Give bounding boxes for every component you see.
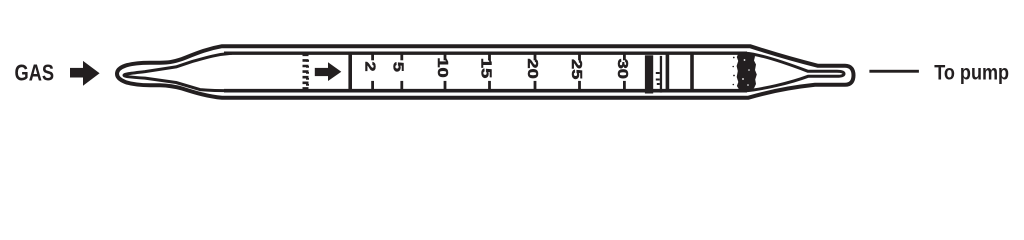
- scale number 30: [614, 59, 631, 79]
- svg-text:30: 30: [614, 59, 631, 79]
- tube inner wall bottom: [224, 89, 747, 93]
- svg-text:20: 20: [525, 58, 542, 78]
- connector dash to pump: [869, 70, 919, 73]
- scale number 20: [525, 58, 542, 78]
- svg-text:25: 25: [568, 59, 585, 79]
- scale number 5: [390, 62, 407, 72]
- tube inner wall top: [224, 52, 747, 55]
- svg-text:10: 10: [434, 57, 451, 77]
- svg-text:GAS: GAS: [15, 61, 55, 86]
- GAS flow block arrow: [70, 61, 100, 86]
- scale number 2: [362, 61, 379, 71]
- svg-text:15: 15: [478, 58, 495, 78]
- scale number 10: [434, 57, 451, 77]
- svg-text:5: 5: [390, 62, 407, 72]
- scale start line: [348, 53, 352, 92]
- scale end line: [666, 53, 670, 92]
- svg-text:2: 2: [362, 61, 379, 71]
- detector tube outer body: [117, 46, 854, 98]
- scale ticks top: [373, 52, 625, 60]
- tube inner wall left (broken tip bore): [124, 53, 232, 90]
- tiny unit marks beside band: [656, 56, 662, 93]
- To pump label: [934, 61, 1009, 85]
- reagent end line: [690, 53, 694, 92]
- tube inner wall right (pump-end bore): [746, 53, 844, 90]
- printed flow arrow inside tube: [315, 62, 342, 81]
- printed black band near scale end: [645, 55, 653, 93]
- svg-text:To pump: To pump: [934, 61, 1009, 85]
- scale number 25: [568, 59, 585, 79]
- scale ticks bottom: [373, 81, 625, 92]
- GAS label: [15, 61, 55, 86]
- stippled retaining plug: [732, 53, 756, 90]
- scale number 15: [478, 58, 495, 78]
- dotted retainer boundary (left of reagent layer): [306, 54, 308, 91]
